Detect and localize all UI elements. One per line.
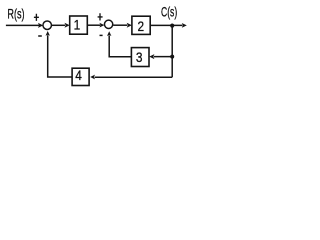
- arrowhead into block 1: [65, 23, 70, 28]
- arrowhead output C(s): [182, 23, 187, 28]
- block 2: [132, 16, 150, 34]
- block 1: [70, 16, 88, 34]
- svg-text:3: 3: [136, 49, 143, 65]
- node A takeoff dot: [170, 24, 174, 28]
- arrowhead into block 2: [127, 23, 132, 28]
- plus sign at S2: [98, 13, 103, 20]
- svg-text:2: 2: [137, 18, 144, 34]
- wire trunk down from node A: [171, 26, 173, 78]
- op summer S1: [43, 21, 52, 30]
- svg-text:4: 4: [75, 67, 82, 83]
- block 3 value label "3": [136, 49, 143, 65]
- wire block 4 to S1: [48, 35, 72, 77]
- block 2 value label "2": [137, 18, 144, 34]
- svg-text:1: 1: [74, 17, 81, 33]
- wire S2 to block 2: [113, 24, 127, 26]
- svg-text:C(s): C(s): [161, 5, 177, 20]
- summer S2: [104, 20, 112, 28]
- wire S1 to block 1: [51, 24, 65, 26]
- arrowhead up into S2: [107, 31, 111, 36]
- wire block 1 to summer S2: [87, 24, 100, 26]
- wire block 3 to S2: [109, 36, 131, 57]
- wire node B to block 3: [154, 56, 172, 58]
- wire bottom feedback from node A to block 4: [95, 76, 173, 78]
- minus sign at S1: [38, 35, 42, 37]
- minus sign at S2: [100, 34, 103, 36]
- block 4 value label "4": [75, 67, 82, 83]
- wire block 2 to C(s) output: [150, 24, 182, 26]
- wire R(s) to summer S1: [6, 24, 39, 26]
- node C(s) output label: [161, 5, 177, 20]
- arrowhead into block 4: [90, 75, 95, 80]
- block 1 value label "1": [74, 17, 81, 33]
- plus sign at S1: [34, 14, 39, 21]
- arrowhead into S2: [99, 23, 104, 28]
- arrowhead into S1: [38, 23, 43, 28]
- arrowhead up into S1: [46, 31, 50, 36]
- node B junction dot: [170, 55, 174, 59]
- block 4: [72, 68, 89, 85]
- block 3: [131, 48, 149, 67]
- svg-text:R(s): R(s): [7, 6, 24, 21]
- arrowhead into block 3: [149, 54, 154, 59]
- node R(s) input label: [7, 6, 24, 21]
